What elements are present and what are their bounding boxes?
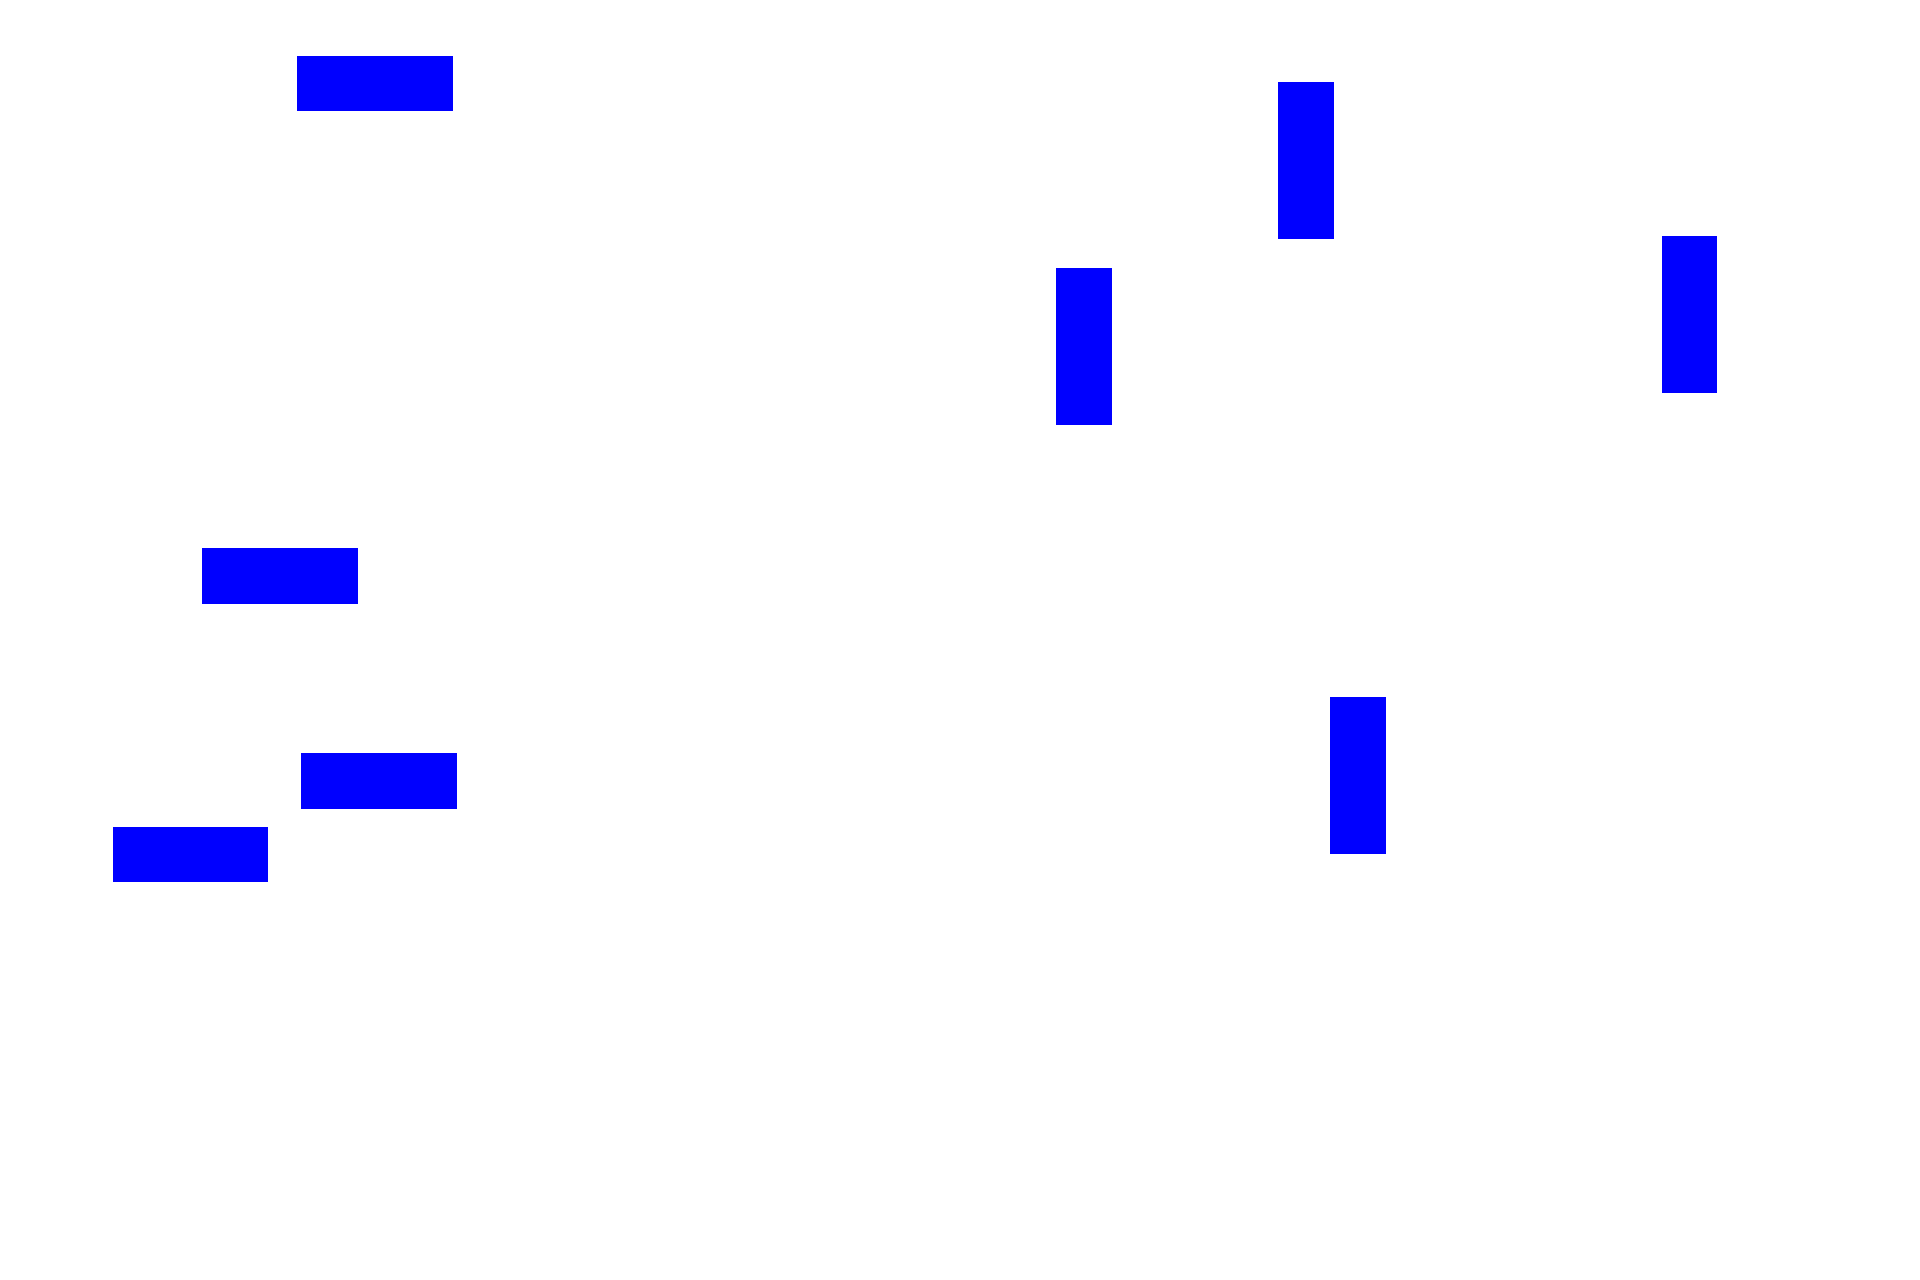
rectangle 6 (vertical, lower-middle-right) [1330,697,1386,854]
rectangle 7 (horizontal, lower-left) [301,753,457,809]
rectangle 5 (horizontal, mid-left) [202,548,358,604]
rectangle 8 (horizontal, bottom-left) [113,827,268,882]
rectangle 2 (vertical, top-middle-right) [1278,82,1334,239]
rectangle 1 (horizontal, top-left) [297,56,453,111]
rectangle 4 (vertical, middle) [1056,268,1112,425]
rectangle 3 (vertical, right) [1662,236,1717,393]
